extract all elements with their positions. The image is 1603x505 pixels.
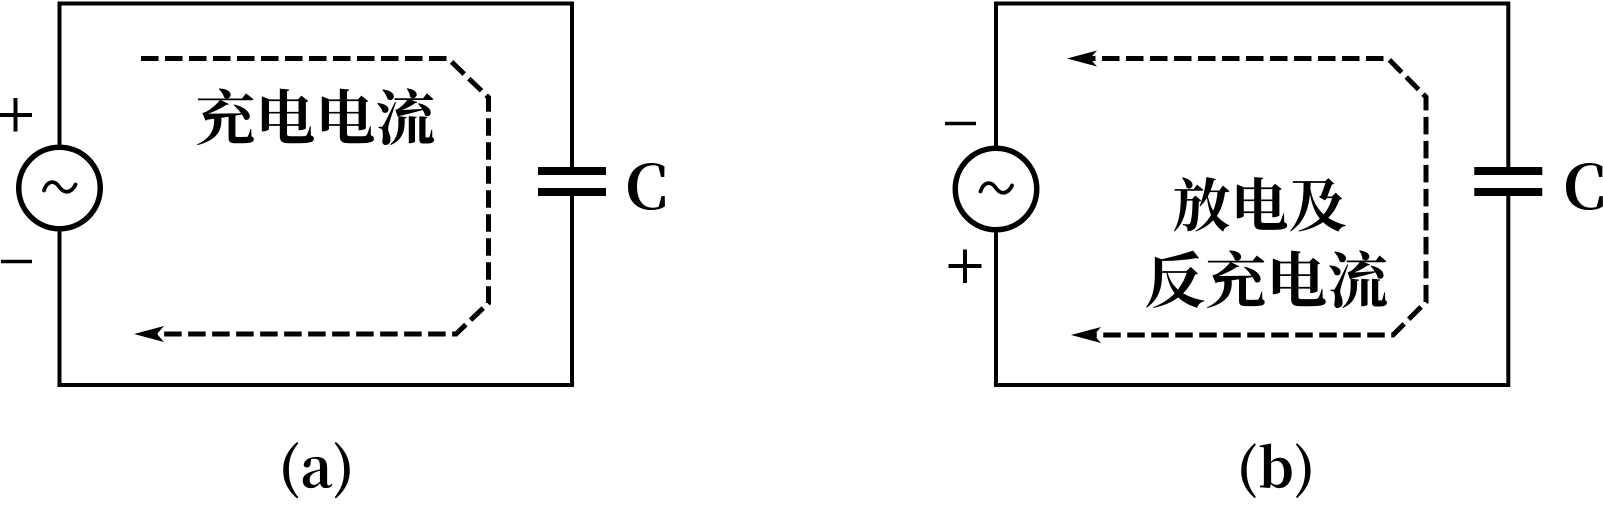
sub-figure label (b) [1241,443,1310,498]
AC source V2 of circuit (b) [955,148,1037,230]
polarity + of source V2 (b) [949,250,982,284]
wire loop of circuit (a) [60,4,573,386]
arrowhead of charging-current path (a) [134,326,164,342]
dashed charging-current path of circuit (a) [141,59,489,335]
wire loop of circuit (b) [996,4,1508,386]
polarity - of source V1 (a) [1,260,32,264]
polarity + of source V1 (a) [0,98,32,132]
text label 充电电流 (charging current) [197,88,434,145]
AC source V1 of circuit (a) [19,147,101,229]
value label C (b) [1566,163,1603,210]
dashed discharge-current path of circuit (b) [1078,59,1426,336]
arrowhead top of discharge path (b) [1067,51,1097,67]
capacitor C of circuit (a) [538,167,606,196]
text label 反充电流 (reverse charging current) [1146,250,1387,308]
polarity - of source V2 (b) [945,122,976,126]
sub-figure label (a) [283,442,350,498]
text label 放电及 (discharge and) [1174,177,1346,232]
value label C (a) [628,163,665,210]
capacitor C of circuit (b) [1474,167,1542,196]
arrowhead bottom of discharge path (b) [1071,327,1101,343]
